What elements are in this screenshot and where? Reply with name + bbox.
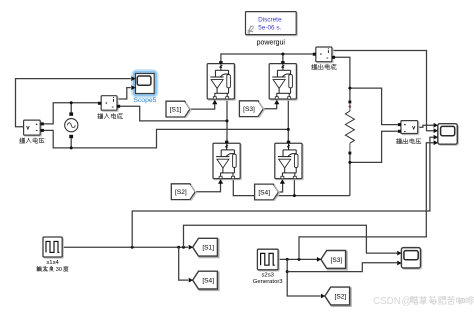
svg-text:[S3]: [S3] xyxy=(243,106,255,113)
node T4 cathode junction xyxy=(293,194,296,197)
wire resistor top to output-voltage + xyxy=(350,88,398,125)
pulse generator s2s3 xyxy=(253,249,284,285)
wire s1s4 to Scope2 in1 xyxy=(184,225,398,253)
from tag [S2] xyxy=(171,184,196,201)
wire cathode bus xyxy=(233,178,350,195)
thyristor T4 xyxy=(275,141,303,184)
resistor load R xyxy=(345,101,354,155)
goto tag [S2] xyxy=(321,287,351,306)
node AC plus junction xyxy=(70,101,73,104)
powergui block xyxy=(246,12,298,47)
voltage measurement 输入电压 xyxy=(19,120,44,143)
thyristor T1 xyxy=(207,61,235,104)
svg-text:Generator3: Generator3 xyxy=(253,279,284,285)
voltage measurement 输出电压 xyxy=(396,121,421,144)
from tag [S4] xyxy=(255,184,280,201)
wire input-current return xyxy=(120,106,227,121)
goto tag [S1] xyxy=(189,238,219,257)
current measurement 输出电流 xyxy=(311,47,336,69)
svg-text:[S4]: [S4] xyxy=(258,190,270,197)
svg-text:30: 30 xyxy=(56,267,62,273)
thyristor T2 xyxy=(269,61,297,104)
wire s2s3 to goto S2 xyxy=(287,259,320,296)
svg-text:[S2]: [S2] xyxy=(175,189,187,196)
scope Scope2 two-input xyxy=(397,248,421,270)
svg-text:[S2]: [S2] xyxy=(335,294,347,301)
wire T2k-T4a leg xyxy=(287,99,289,143)
wire S3 to T2 gate xyxy=(264,103,277,109)
wire S1 to T1 gate xyxy=(190,103,215,110)
svg-text:CSDN: CSDN xyxy=(373,296,401,307)
wire output-current minus to resistor xyxy=(334,57,350,100)
svg-text:Scope5: Scope5 xyxy=(133,97,156,104)
wire input bottom bus xyxy=(44,129,288,148)
node right leg junction xyxy=(287,128,290,131)
goto tag [S3] xyxy=(317,251,347,270)
wire S4 to T4 gate xyxy=(279,182,283,192)
wire input-current i to Scope5 in2 xyxy=(117,88,131,99)
node AC minus junction xyxy=(70,146,73,149)
from tag [S1] xyxy=(166,101,191,118)
wire input top bus xyxy=(44,103,98,124)
node s1s4 junction A xyxy=(131,246,134,249)
thyristor T3 xyxy=(213,141,241,184)
node s2s3 scope tap xyxy=(286,270,289,273)
node top bus junction xyxy=(281,53,284,56)
svg-text:@: @ xyxy=(402,296,412,307)
wire output-current i to Scope1 in2 xyxy=(332,51,434,131)
wire output-voltage v to Scope1 in1 xyxy=(418,125,434,127)
svg-text:[S4]: [S4] xyxy=(202,278,214,285)
svg-text:[S3]: [S3] xyxy=(331,257,343,264)
from tag [S3] xyxy=(239,101,264,118)
svg-text:s2s3: s2s3 xyxy=(261,273,274,279)
svg-text:powergui: powergui xyxy=(257,39,286,46)
node resistor top tap xyxy=(348,87,351,90)
wire s1s4 output xyxy=(62,246,188,248)
wire top DC bus xyxy=(221,54,313,62)
wire s1s4 to Scope1 in3 xyxy=(132,137,433,247)
wire s1s4 to goto S4 xyxy=(179,247,189,280)
watermark CSDN xyxy=(373,296,474,307)
node s1s4 junction C xyxy=(182,246,185,249)
scope Scope1 four-input xyxy=(434,123,459,145)
svg-text:Discrete: Discrete xyxy=(258,16,282,23)
svg-text:5e-06 s.: 5e-06 s. xyxy=(258,24,281,31)
svg-text:[S1]: [S1] xyxy=(170,107,182,114)
wire T1k-T3a leg xyxy=(226,99,228,143)
node s2s3 junction B xyxy=(298,258,301,261)
wire resistor bottom to output-voltage - xyxy=(350,131,398,195)
current measurement 输入电流 xyxy=(98,96,123,119)
wire s2s3 output xyxy=(278,258,320,260)
wire s2s3 to Scope1 in4 xyxy=(299,143,434,260)
node resistor bottom tap xyxy=(348,161,351,164)
AC voltage source xyxy=(65,112,78,138)
goto tag [S4] xyxy=(189,271,219,290)
svg-text:s1s4: s1s4 xyxy=(46,260,59,266)
wire s2s3 to Scope2 in2 xyxy=(287,263,397,272)
wire input-voltage v to Scope5 in1 xyxy=(16,79,131,127)
svg-text:[S1]: [S1] xyxy=(202,245,214,252)
wire S2 to T3 gate xyxy=(195,182,220,192)
scope Scope5 xyxy=(131,71,156,104)
node s2s3 junction A xyxy=(286,258,289,261)
node left leg junction xyxy=(226,119,229,122)
node s1s4 junction B xyxy=(177,246,180,249)
pulse generator s1s4 xyxy=(37,237,68,273)
